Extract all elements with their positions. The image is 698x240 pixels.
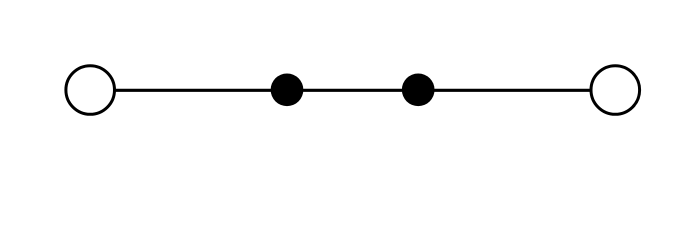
node D (open terminal, right) xyxy=(591,66,640,115)
wire xyxy=(90,89,616,92)
node C (filled junction, right-middle) xyxy=(402,73,435,106)
node A (open terminal, left) xyxy=(66,66,115,115)
node B (filled junction, left-middle) xyxy=(271,73,304,106)
